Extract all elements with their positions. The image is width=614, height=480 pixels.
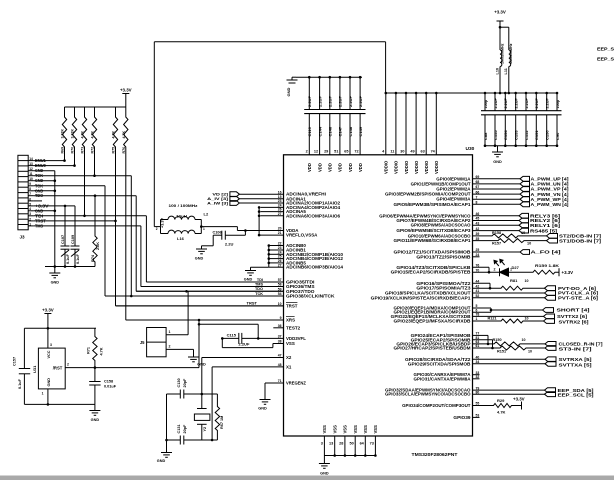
capacitor C106 2.2U [213, 234, 222, 236]
power +3.3V at R29 [521, 402, 523, 410]
pin VDDA wire [237, 230, 283, 232]
pin GPIO38/XCLKIN/TCK wire [105, 295, 284, 297]
pin ADCINB4/COMP2B/AIO12 wire [269, 258, 284, 260]
svg-text:C131: C131 [177, 424, 181, 433]
svg-text:2.2UF: 2.2UF [494, 97, 498, 108]
capacitor C151 2.2UF column [535, 93, 537, 111]
net flag A_PWM_VN [473, 193, 521, 195]
wire GPIO24 bend [473, 334, 489, 336]
svg-text:1: 1 [169, 330, 171, 334]
svg-text:ST3-IN [7]: ST3-IN [7] [559, 347, 593, 352]
pin ADCINA6/COMP3A/AIO6 wire [261, 215, 284, 217]
svg-text:R150: R150 [493, 338, 502, 342]
GND rail below C107/C109 [45, 266, 95, 268]
wire +3.3V pullup rail [65, 106, 126, 108]
svg-text:SVTTX2 [6]: SVTTX2 [6] [557, 314, 588, 319]
net flag ST3-IN [545, 346, 556, 351]
inductor L16 [160, 227, 162, 234]
svg-text:9: 9 [29, 182, 31, 186]
wire X2 to crystal [201, 358, 203, 395]
connector J3 pin 5 stub [28, 205, 34, 207]
svg-text:0.1uF: 0.1uF [76, 253, 80, 264]
svg-text:1: 1 [203, 227, 205, 231]
svg-text:U31: U31 [32, 365, 37, 373]
connector J3 pin 6 stub [28, 200, 34, 202]
net flag A_PWM_VP [473, 188, 521, 190]
net flag CLOSED_R-IN [545, 342, 556, 347]
svg-text:2: 2 [67, 363, 69, 367]
svg-text:2: 2 [156, 227, 158, 231]
wire crystal left rail [166, 394, 168, 440]
capacitor C158 0.01uF [94, 368, 96, 382]
wire GPIO25 bend [473, 339, 493, 341]
svg-text:C147: C147 [338, 126, 343, 136]
wire VDDA [200, 225, 203, 228]
svg-text:30: 30 [400, 150, 404, 154]
pin GPIO30 stub [473, 374, 480, 376]
resistor R158 10 [473, 234, 547, 238]
svg-text:R74: R74 [91, 254, 95, 262]
svg-text:2.2UF: 2.2UF [317, 96, 322, 107]
svg-text:R75: R75 [112, 147, 116, 154]
connector J3 pin 1 stub [28, 225, 34, 227]
pin ADCINA5 wire [261, 211, 284, 213]
svg-text:R159 1.8K: R159 1.8K [535, 263, 559, 268]
ground at J5 [193, 349, 195, 357]
svg-text:12: 12 [314, 150, 318, 154]
pin ADCINB2/COMP1B/AIO10 wire [269, 253, 284, 255]
svg-text:29: 29 [324, 150, 328, 154]
svg-text:16: 16 [278, 190, 282, 194]
svg-text:C155: C155 [493, 130, 498, 140]
svg-text:SVTRXA [5]: SVTRXA [5] [559, 357, 593, 362]
svg-text:TMS: TMS [255, 282, 263, 286]
pin ADCINA4/COMP2A/AIO4 wire [261, 206, 284, 208]
pin VSS 28 column [344, 436, 346, 456]
wire TMS bus [141, 286, 284, 288]
svg-text:GPIO13/TZ2/SPISOMIB: GPIO13/TZ2/SPISOMIB [416, 254, 470, 259]
svg-text:TRST: TRST [247, 300, 258, 305]
svg-text:C106: C106 [213, 230, 222, 234]
svg-text:10: 10 [527, 242, 531, 246]
pin VDD3VFL wire [258, 337, 283, 339]
power +3.3V at U31 [47, 314, 49, 318]
svg-text:2.2UF: 2.2UF [358, 96, 363, 107]
svg-text:37: 37 [278, 335, 282, 339]
connector J3 pin 12 stub [28, 170, 34, 172]
svg-text:10: 10 [525, 316, 529, 320]
pin VREFLO,VSSA wire [259, 234, 283, 236]
svg-text:D27: D27 [512, 265, 520, 270]
svg-text:GPIO9/EPWM5B/SCITXDB/ECAP3: GPIO9/EPWM5B/SCITXDB/ECAP3 [396, 228, 471, 233]
svg-text:27: 27 [278, 212, 282, 216]
svg-text:7: 7 [29, 192, 31, 196]
svg-text:+3.3V: +3.3V [513, 396, 525, 401]
ground below J3 [54, 267, 56, 274]
ground at crystal [166, 440, 168, 453]
wire U31 bottom rail [24, 403, 95, 405]
svg-text:X2: X2 [286, 355, 292, 360]
net flag SVTTX2 [473, 315, 544, 317]
svg-text:100/100MHz: 100/100MHz [509, 43, 513, 64]
svg-text:GPIO39: GPIO39 [453, 415, 471, 420]
VDDIO rail [386, 92, 557, 94]
svg-text:10uH: 10uH [176, 215, 187, 219]
capacitor C154 2.2UF column [504, 93, 506, 111]
capacitor C148 2.2UF column / pin VDD 65 [349, 77, 351, 109]
resistor R159 1.8K [529, 270, 559, 274]
resistor R151 10 [473, 346, 546, 350]
svg-text:3: 3 [50, 343, 52, 347]
svg-text:TRST: TRST [286, 303, 298, 308]
svg-text:4.7K: 4.7K [112, 131, 116, 139]
svg-text:4.7K: 4.7K [497, 409, 506, 414]
svg-text:GND: GND [244, 278, 253, 282]
svg-text:GPIO8/EPWM5A/ADCSOCAO: GPIO8/EPWM5A/ADCSOCAO [411, 223, 471, 228]
svg-text:63: 63 [420, 150, 424, 154]
net flag A_FO [473, 251, 521, 253]
ground at VSS rail [323, 456, 325, 464]
svg-text:C150: C150 [545, 130, 550, 140]
resistor R74 2.2K [93, 196, 97, 267]
capacitor C152 2.2UF column [525, 93, 527, 111]
net flag PVT-DO_A [545, 286, 556, 291]
svg-text:2.2UF: 2.2UF [525, 97, 529, 108]
connector J3 pin 10 stub [28, 180, 34, 182]
pin ADCINA0,VREFHI wire [266, 193, 284, 195]
wire C115 to VSS pin [221, 338, 223, 347]
svg-text:R71: R71 [87, 347, 91, 354]
svg-text:2.2UF: 2.2UF [515, 97, 519, 108]
net flag ST2/DCB-IN [547, 234, 558, 239]
ground at ADCINB [251, 266, 269, 268]
connector J3 pin 2 stub [28, 220, 34, 222]
pin U31 VCC [47, 328, 49, 348]
net flag RELY3 [473, 215, 520, 217]
svg-text:A_FO [4]: A_FO [4] [531, 250, 562, 255]
svg-text:22: 22 [278, 242, 282, 246]
capacitor C150 2.2UF column [546, 93, 548, 111]
net flag PVT-CLK_A [473, 292, 545, 294]
svg-text:VREGENZ: VREGENZ [286, 381, 306, 386]
svg-text:GPIO19/XCLKIN/SPISTEA/SCIRXDB/: GPIO19/XCLKIN/SPISTEA/SCIRXDB/ECAP1 [371, 295, 471, 300]
svg-text:C154: C154 [503, 130, 508, 140]
svg-text:10: 10 [29, 177, 33, 181]
svg-text:C151: C151 [534, 130, 539, 140]
svg-text:R67 1M: R67 1M [220, 416, 224, 429]
svg-text:EEP_SCL [5]: EEP_SCL [5] [558, 393, 595, 398]
resistor R69 3.32K [62, 107, 66, 161]
wire GPIO14 to LED [473, 266, 490, 268]
svg-text:J5: J5 [140, 340, 145, 345]
net flag EEP_SCL [473, 393, 545, 395]
svg-text:C152: C152 [524, 130, 529, 140]
svg-text:VDDIO: VDDIO [424, 160, 429, 174]
GND rail for VDD caps [296, 76, 362, 78]
svg-text:48: 48 [278, 363, 282, 367]
svg-text:GPIO23/EQEP1I/MFSXA/SCIRXDB: GPIO23/EQEP1I/MFSXA/SCIRXDB [394, 319, 471, 324]
svg-text:L11: L11 [504, 68, 508, 74]
svg-text:VSS: VSS [333, 425, 338, 434]
wire TDO bus [136, 290, 283, 292]
svg-text:2: 2 [169, 345, 171, 349]
svg-text:VSS: VSS [343, 425, 348, 434]
svg-text:73: 73 [370, 442, 374, 446]
svg-text:GPIO27/HRCAP2/SPISTEB/USBDM: GPIO27/HRCAP2/SPISTEB/USBDM [394, 346, 471, 351]
svg-text:12: 12 [29, 167, 33, 171]
svg-text:36: 36 [278, 324, 282, 328]
crystal Y2 [201, 394, 203, 409]
svg-text:R69: R69 [61, 147, 65, 154]
svg-text:+3.3V: +3.3V [562, 270, 574, 275]
svg-text:27: 27 [278, 263, 282, 267]
wire EMU1 [34, 160, 65, 162]
svg-text:2.2U: 2.2U [225, 242, 234, 247]
svg-text:50: 50 [349, 442, 353, 446]
svg-text:R29: R29 [497, 398, 505, 403]
net flag RELY2 [473, 220, 520, 222]
svg-text:VDD: VDD [348, 163, 353, 172]
svg-text:13: 13 [29, 162, 33, 166]
svg-text:R73: R73 [81, 147, 85, 154]
wire TDI from J3 [34, 215, 146, 217]
capacitor C146 2.2UF column / pin VDD 29 [329, 77, 331, 109]
pin VSS wire [273, 343, 284, 345]
pin ADCINB6/COMP3B/AIO14 wire [269, 266, 284, 268]
connector J3 pin 11 stub [28, 175, 34, 177]
svg-text:R70: R70 [71, 147, 75, 154]
pin TRST wire [116, 305, 284, 307]
resistor R71 4.7K [93, 328, 97, 367]
pin VSS 13 column [334, 436, 336, 456]
pin GPIO37/TDO wire [136, 290, 283, 292]
connector J3 pin 4 stub [28, 210, 34, 212]
svg-text:L10: L10 [495, 68, 499, 75]
svg-text:C146: C146 [328, 126, 333, 136]
svg-text:VDD: VDD [358, 163, 363, 172]
svg-text:10: 10 [528, 350, 532, 354]
svg-text:GND: GND [91, 418, 100, 422]
svg-text:65: 65 [344, 150, 348, 154]
capacitor C115 2.2UF [222, 337, 239, 339]
svg-text:4.7K: 4.7K [81, 131, 85, 139]
net flag ST1/DOB-IN [547, 238, 558, 243]
svg-text:C88: C88 [483, 132, 488, 140]
pin TEST2 wire [273, 327, 283, 329]
resistor R150 10 [473, 342, 546, 346]
pin U31 /RST [65, 367, 95, 369]
svg-text:100p: 100p [556, 99, 560, 108]
svg-text:GPIO5/EPWM3B/SPISIMOA/ECAP1: GPIO5/EPWM3B/SPISIMOA/ECAP1 [394, 202, 472, 207]
net flag PVT-STE_A [473, 297, 545, 299]
pin GPIO13 stub [473, 256, 480, 258]
svg-text:GPIO33/SCLA/EPWMSYNCO/ADCSOCBO: GPIO33/SCLA/EPWMSYNCO/ADCSOCBO [385, 392, 471, 397]
resistor R157 10 [473, 239, 547, 243]
wire X1 to crystal [211, 367, 213, 440]
svg-text:SVTRX2 [6]: SVTRX2 [6] [559, 320, 590, 325]
svg-text:GPIO29/SCITXDA/SPISMOB: GPIO29/SCITXDA/SPISMOB [408, 361, 471, 366]
ground at C106 [212, 235, 214, 246]
svg-text:C149: C149 [358, 126, 363, 136]
svg-text:VSS: VSS [363, 425, 368, 434]
svg-text:72: 72 [354, 150, 358, 154]
wire GPIO20/21 merge to SHORT [473, 307, 492, 309]
svg-text:SHORT [4]: SHORT [4] [557, 308, 591, 313]
wire VREGENZ to GND [264, 383, 266, 400]
svg-text:Y2: Y2 [203, 427, 207, 432]
resistor R75 4.7K [113, 107, 117, 221]
svg-text:2.2K: 2.2K [96, 242, 100, 250]
svg-text:RS485 [5]: RS485 [5] [530, 228, 558, 233]
svg-text:ADCINA6/COMP3A/AIO6: ADCINA6/COMP3A/AIO6 [286, 213, 341, 218]
svg-text:0.1uF: 0.1uF [66, 253, 70, 264]
ground at VDD cap rail [292, 76, 296, 78]
wire U31 top rail [24, 327, 95, 329]
svg-text:C153: C153 [514, 130, 519, 140]
svg-text:3: 3 [321, 442, 323, 446]
svg-text:GPIO38/XCLKIN/TCK: GPIO38/XCLKIN/TCK [286, 294, 335, 299]
svg-text:C109: C109 [71, 235, 75, 244]
svg-text:C148: C148 [348, 126, 353, 136]
svg-text:GPIO11/EPWM6B/SCIRXDB/ECAP1: GPIO11/EPWM6B/SCIRXDB/ECAP1 [394, 238, 472, 243]
IO cap bank bottom rail [485, 145, 557, 147]
svg-text:R158: R158 [492, 231, 501, 235]
net flag A_IW [230, 201, 240, 206]
svg-text:100/100MHz: 100/100MHz [500, 43, 504, 64]
svg-text:2: 2 [494, 268, 496, 272]
pin VSS 3 column [323, 436, 325, 456]
svg-text:1: 1 [29, 222, 31, 226]
connector J3 pin 3 stub [28, 215, 34, 217]
svg-text:TEST2: TEST2 [286, 325, 301, 330]
wire TRST bus [115, 221, 117, 306]
capacitor C153 2.2UF column [515, 93, 517, 111]
pin VDDIO 63 column [425, 93, 427, 155]
svg-text:C130: C130 [177, 378, 181, 387]
pin ADCINA1 wire [266, 198, 284, 200]
svg-text:TCK: TCK [255, 292, 263, 296]
pin VDDIO 49 column [415, 93, 417, 155]
pin VDDIO 30 column [405, 93, 407, 155]
svg-text:VDDIO: VDDIO [434, 160, 439, 174]
resistor R72 4.7K [92, 107, 96, 176]
svg-text:VCC: VCC [47, 350, 51, 358]
pin J5 2 [166, 348, 193, 350]
svg-text:VDDIO: VDDIO [384, 160, 389, 174]
svg-text:C158: C158 [104, 380, 113, 384]
svg-text:2: 2 [306, 150, 308, 154]
net flag A_IV [230, 196, 240, 201]
capacitor C144 2.2UF column / pin VDD 12 [319, 77, 321, 109]
power +3.3V at pullup rail [125, 94, 127, 98]
svg-text:38: 38 [278, 340, 282, 344]
connector J3 pin 8 stub [28, 190, 34, 192]
svg-text:71: 71 [278, 379, 282, 383]
resistor R29 4.7K [473, 404, 522, 408]
svg-text:R76: R76 [122, 147, 126, 154]
connector J3 pin 9 stub [28, 185, 34, 187]
svg-text:2.2UF: 2.2UF [307, 96, 312, 107]
svg-text:2.2UF: 2.2UF [239, 341, 250, 346]
pin VSS 73 column [374, 436, 376, 456]
pin ADCINB1 wire [269, 249, 284, 251]
svg-text:RELY1 [6]: RELY1 [6] [530, 223, 561, 228]
capacitor C131 20pF [167, 439, 181, 441]
svg-text:11: 11 [390, 150, 394, 154]
wire J5 to TDO [187, 291, 189, 335]
pin ADCINB0 wire [269, 245, 284, 247]
capacitor C88 100p column [484, 93, 486, 111]
pin VDDIO 4 column [385, 93, 387, 155]
net flag EEP_SDA [473, 389, 545, 391]
svg-text:GND: GND [51, 281, 60, 285]
capacitor C107 0.1uF [64, 206, 66, 246]
connector J3 pin 7 stub [28, 195, 34, 197]
svg-text:GND: GND [286, 88, 291, 97]
svg-text:+3.3V: +3.3V [494, 10, 506, 15]
svg-text:TDO: TDO [255, 287, 263, 291]
wire XRS bus [126, 319, 284, 321]
svg-text:2.2UF: 2.2UF [328, 96, 333, 107]
svg-text:4.7K: 4.7K [91, 131, 95, 139]
svg-text:GPIO31/CANTXA/EPWM8A: GPIO31/CANTXA/EPWM8A [414, 376, 472, 381]
wire TDO from J3 [34, 195, 136, 197]
svg-text:EEP_S: EEP_S [597, 46, 614, 52]
capacitor C155 2.2UF column [494, 93, 496, 111]
svg-text:4.7K: 4.7K [100, 347, 104, 355]
pin GPIO39 stub [473, 416, 480, 418]
LED D27 [473, 271, 500, 273]
ground at U31 [94, 404, 96, 410]
svg-text:U30: U30 [466, 146, 475, 152]
svg-text:VDD: VDD [328, 163, 333, 172]
pin X2 wire [202, 357, 284, 359]
wire /RST to XRS [95, 367, 199, 369]
net flag A_PWM_WP [473, 198, 521, 200]
svg-text:R121: R121 [488, 316, 497, 320]
svg-text:8: 8 [29, 187, 31, 191]
pin VSS 64 column [364, 436, 366, 456]
net flag SVTRX2 [544, 319, 555, 324]
svg-text:C90: C90 [555, 132, 560, 140]
wire TCK from J3 [34, 175, 131, 177]
svg-text:2.2UF: 2.2UF [338, 96, 343, 107]
resistor R76 4.7K [124, 107, 128, 320]
svg-text:100 / 100MHz: 100 / 100MHz [169, 204, 198, 208]
pin J5 1 [166, 334, 188, 336]
wire EMU0 [34, 165, 75, 167]
svg-text:VDDIO: VDDIO [394, 160, 399, 174]
svg-text:4.7K: 4.7K [122, 131, 126, 139]
svg-text:VDD: VDD [307, 163, 312, 172]
svg-text:PVT-STE_A [6]: PVT-STE_A [6] [558, 296, 599, 301]
svg-text:5: 5 [29, 202, 31, 206]
capacitor C130 20pF [167, 393, 181, 395]
pin VDDIO 74 column [435, 93, 437, 155]
connector J5 body [147, 328, 167, 357]
svg-text:GND: GND [258, 407, 267, 411]
svg-text:VDD: VDD [338, 163, 343, 172]
svg-text:2.2UF: 2.2UF [504, 97, 508, 108]
resistor R67 1M [215, 394, 219, 440]
inductor L10 100/100MHz [499, 27, 501, 50]
net flag A_PWM_UN [473, 183, 521, 185]
svg-text:R157: R157 [492, 242, 501, 246]
svg-text:VREFLO,VSSA: VREFLO,VSSA [286, 233, 318, 238]
net flag A_PWM_WN [473, 203, 521, 205]
svg-text:VDDIO: VDDIO [414, 160, 419, 174]
connector J3 pin 14 stub [28, 160, 34, 162]
